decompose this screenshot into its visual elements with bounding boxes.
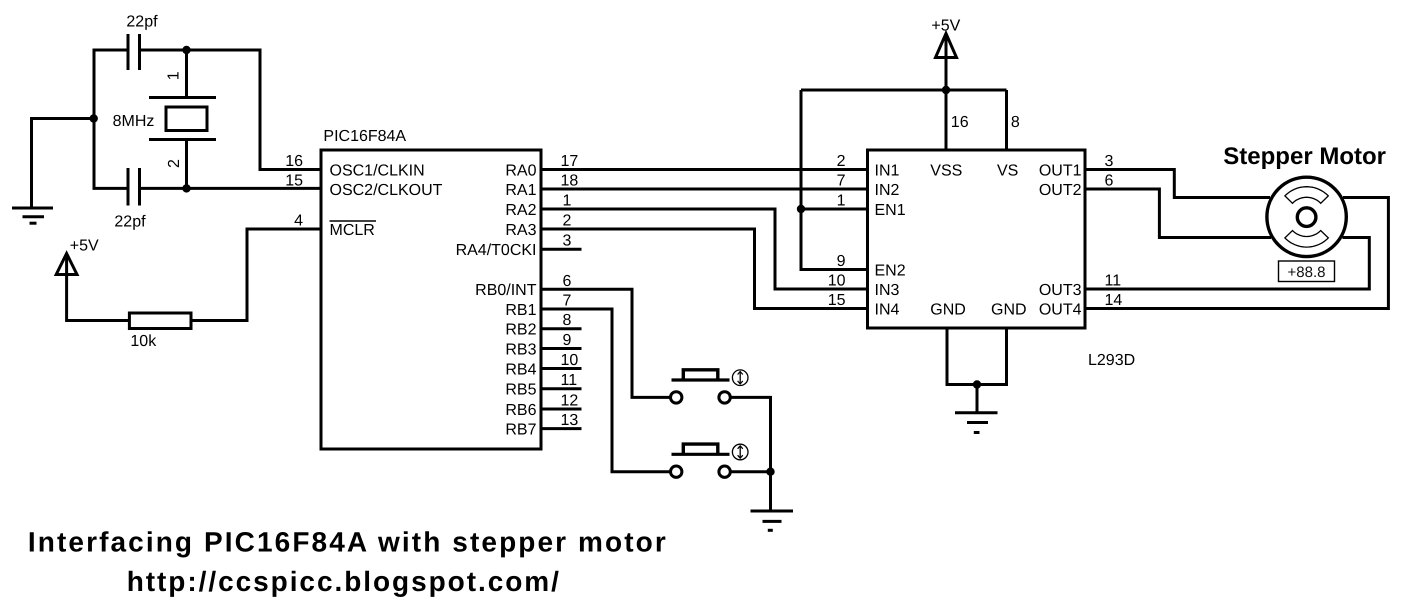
svg-text:IN2: IN2 [875,182,900,199]
svg-text:6: 6 [563,273,572,290]
svg-text:+88.8: +88.8 [1288,264,1326,281]
svg-text:VS: VS [997,162,1018,179]
svg-text:VSS: VSS [930,162,962,179]
svg-text:2: 2 [837,153,846,170]
svg-text:2: 2 [563,213,572,230]
svg-text:RA1: RA1 [505,182,536,199]
svg-text:+5V: +5V [70,238,99,255]
svg-text:RA2: RA2 [505,202,536,219]
svg-text:16: 16 [951,114,969,131]
svg-text:18: 18 [561,173,579,190]
svg-text:RB5: RB5 [505,382,536,399]
svg-text:Interfacing PIC16F84A with ste: Interfacing PIC16F84A with stepper motor [28,527,668,558]
svg-text:RB3: RB3 [505,341,536,358]
svg-text:L293D: L293D [1088,352,1135,369]
svg-text:MCLR: MCLR [330,222,375,239]
svg-text:RB2: RB2 [505,322,536,339]
svg-text:OUT2: OUT2 [1039,182,1082,199]
svg-text:15: 15 [828,292,846,309]
svg-text:3: 3 [1105,153,1114,170]
svg-text:EN1: EN1 [875,202,906,219]
svg-text:OUT1: OUT1 [1039,162,1082,179]
svg-text:10k: 10k [130,333,157,350]
svg-text:11: 11 [1105,273,1122,290]
svg-text:9: 9 [837,253,846,270]
svg-text:16: 16 [285,153,303,170]
svg-text:RA4/T0CKI: RA4/T0CKI [456,242,537,259]
svg-text:1: 1 [837,193,846,210]
svg-text:1: 1 [563,193,572,210]
svg-text:10: 10 [828,273,846,290]
svg-text:15: 15 [285,173,303,190]
svg-text:OSC2/CLKOUT: OSC2/CLKOUT [330,182,443,199]
svg-text:7: 7 [563,293,572,310]
svg-text:2: 2 [166,159,183,168]
svg-text:IN1: IN1 [875,162,900,179]
svg-text:14: 14 [1105,292,1123,309]
svg-text:8MHz: 8MHz [113,113,155,130]
svg-text:3: 3 [563,233,572,250]
svg-text:1: 1 [165,71,182,80]
svg-text:GND: GND [991,301,1027,318]
svg-text:RB1: RB1 [505,302,536,319]
svg-text:Stepper Motor: Stepper Motor [1223,143,1386,170]
svg-text:6: 6 [1105,173,1114,190]
svg-text:RB4: RB4 [505,361,536,378]
svg-text:OUT4: OUT4 [1039,301,1082,318]
svg-text:RA3: RA3 [505,222,536,239]
svg-text:IN3: IN3 [875,282,900,299]
svg-text:PIC16F84A: PIC16F84A [323,128,406,145]
svg-text:9: 9 [563,332,572,349]
svg-text:22pf: 22pf [114,214,146,231]
svg-text:RA0: RA0 [505,162,536,179]
svg-text:13: 13 [561,412,579,429]
svg-text:http://ccspicc.blogspot.com/: http://ccspicc.blogspot.com/ [127,566,561,597]
svg-text:4: 4 [294,213,303,230]
svg-text:RB7: RB7 [505,421,536,438]
svg-text:EN2: EN2 [875,262,906,279]
svg-text:RB0/INT: RB0/INT [475,282,537,299]
svg-text:OUT3: OUT3 [1039,282,1082,299]
svg-text:8: 8 [563,312,572,329]
svg-text:OSC1/CLKIN: OSC1/CLKIN [330,162,425,179]
svg-text:RB6: RB6 [505,402,536,419]
svg-text:IN4: IN4 [875,301,900,318]
svg-text:22pf: 22pf [126,14,158,31]
svg-text:12: 12 [561,393,579,410]
svg-text:11: 11 [561,372,578,389]
svg-text:8: 8 [1011,114,1020,131]
svg-text:7: 7 [837,173,846,190]
svg-text:GND: GND [930,301,966,318]
svg-text:17: 17 [561,153,579,170]
svg-text:+5V: +5V [931,18,960,35]
svg-text:10: 10 [561,352,579,369]
